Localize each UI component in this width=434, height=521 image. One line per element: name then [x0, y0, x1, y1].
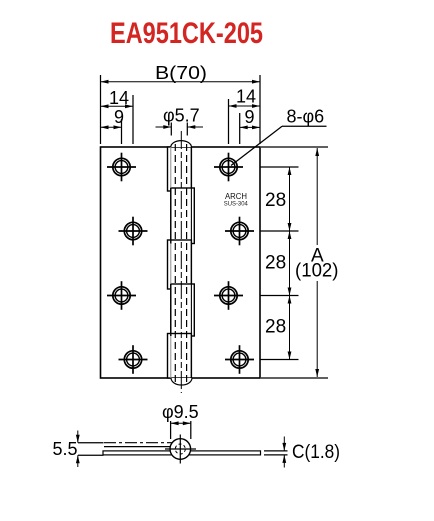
svg-text:28: 28	[265, 253, 286, 274]
svg-text:28: 28	[265, 317, 286, 338]
svg-text:ARCH: ARCH	[225, 191, 247, 201]
dimension A(102)	[315, 148, 319, 377]
extension line row4 right	[261, 359, 299, 361]
svg-text:B(70): B(70)	[155, 63, 207, 83]
svg-text:EA951CK-205: EA951CK-205	[110, 17, 263, 50]
svg-text:8-φ6: 8-φ6	[287, 107, 325, 127]
stamp ARCH SUS-304	[224, 191, 249, 208]
pin hidden line left	[174, 144, 176, 382]
hole row3 left	[107, 281, 136, 310]
dimension 28 upper	[288, 167, 292, 231]
svg-text:14: 14	[109, 88, 129, 108]
svg-text:9: 9	[114, 107, 124, 127]
svg-text:14: 14	[236, 87, 256, 107]
knuckle K2	[171, 188, 195, 244]
dimension 5.5	[76, 431, 104, 468]
barrel center line	[180, 131, 182, 393]
svg-text:SUS-304: SUS-304	[224, 201, 249, 208]
extension line A bottom	[261, 377, 328, 379]
knuckle K5	[168, 334, 192, 379]
knuckle K4 left edge overdraw	[170, 284, 172, 336]
extension line row3 right	[261, 295, 299, 297]
dimension 28 lower	[288, 296, 292, 360]
dimension 14 left	[101, 95, 134, 144]
hole row1 right	[214, 153, 243, 182]
bottom view lower leaf	[103, 451, 261, 455]
knuckle K1	[168, 147, 192, 191]
svg-text:5.5: 5.5	[53, 439, 78, 459]
hole row2 right	[225, 217, 254, 246]
dimension C(1.8)	[264, 437, 288, 468]
hole row1 left	[107, 153, 136, 182]
bottom view pin hidden circle	[175, 444, 185, 454]
bottom view crosshair	[165, 435, 196, 464]
svg-text:28: 28	[265, 190, 286, 211]
svg-text:φ9.5: φ9.5	[162, 402, 199, 422]
hole row4 left	[119, 345, 148, 374]
dimension 28 middle	[288, 231, 292, 296]
knuckle K2 left edge overdraw	[170, 188, 172, 244]
pin hidden line right	[186, 144, 188, 382]
svg-text:9: 9	[245, 107, 255, 127]
extension line row2 right	[261, 230, 299, 232]
barrel dome bottom	[171, 378, 192, 385]
dimension 9 left	[101, 119, 122, 144]
label 8-phi6 leader	[231, 126, 327, 165]
dimension phi9.5	[171, 421, 191, 439]
barrel tube right line	[190, 147, 192, 378]
extension line row1 right	[261, 166, 299, 168]
hole row3 right	[214, 281, 243, 310]
dimension 9 right	[240, 113, 260, 144]
barrel dome top	[171, 141, 192, 147]
svg-text:φ5.7: φ5.7	[163, 105, 200, 125]
hinge plate outline	[101, 147, 261, 378]
hole row2 left	[119, 217, 148, 246]
dimension B(70)	[101, 75, 261, 144]
svg-text:(102): (102)	[295, 261, 339, 282]
knuckle K3	[168, 240, 192, 289]
bottom view upper leaf	[104, 443, 176, 447]
barrel leaf bend line	[170, 147, 172, 378]
bottom view barrel circle	[170, 439, 191, 460]
hole row4 right	[225, 345, 254, 374]
knuckle K4	[171, 284, 195, 336]
dimension 14 right	[229, 99, 261, 144]
dimension phi5.7	[156, 123, 204, 136]
svg-text:C(1.8): C(1.8)	[292, 442, 340, 463]
extension line A top	[261, 146, 328, 148]
